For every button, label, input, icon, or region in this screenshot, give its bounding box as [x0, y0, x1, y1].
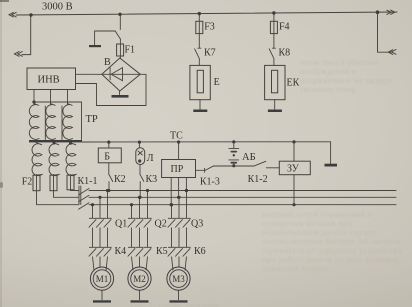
svg-text:К5: К5 [156, 246, 168, 257]
svg-text:ЗУ: ЗУ [287, 164, 300, 175]
svg-text:Л: Л [147, 153, 154, 164]
svg-text:Е: Е [214, 77, 220, 88]
svg-text:К8: К8 [279, 48, 291, 59]
svg-text:ПР: ПР [171, 164, 184, 175]
svg-text:К1-2: К1-2 [248, 174, 268, 185]
svg-text:К1-1: К1-1 [78, 176, 98, 187]
svg-text:F2: F2 [22, 177, 33, 188]
svg-text:Б: Б [104, 151, 110, 162]
svg-text:М1: М1 [96, 274, 109, 284]
svg-text:В: В [104, 57, 111, 68]
svg-text:Q1: Q1 [115, 219, 127, 230]
svg-text:Q2: Q2 [155, 219, 167, 230]
svg-text:Q3: Q3 [191, 219, 203, 230]
svg-text:ТС: ТС [170, 131, 183, 142]
svg-text:К3: К3 [146, 174, 158, 185]
svg-text:К6: К6 [194, 246, 206, 257]
svg-text:К2: К2 [114, 174, 126, 185]
svg-text:3000 В: 3000 В [42, 2, 73, 13]
svg-text:К4: К4 [115, 246, 127, 257]
svg-text:ИНВ: ИНВ [38, 75, 60, 86]
svg-text:АБ: АБ [242, 152, 256, 163]
svg-text:F1: F1 [125, 45, 136, 56]
svg-text:ТР: ТР [86, 114, 98, 125]
svg-text:ЕК: ЕК [287, 78, 300, 89]
svg-text:М3: М3 [172, 274, 185, 284]
svg-text:F3: F3 [204, 22, 215, 33]
svg-text:К7: К7 [204, 48, 216, 59]
svg-text:М2: М2 [133, 274, 146, 284]
svg-text:К1-3: К1-3 [200, 177, 220, 188]
svg-text:F4: F4 [279, 22, 290, 33]
